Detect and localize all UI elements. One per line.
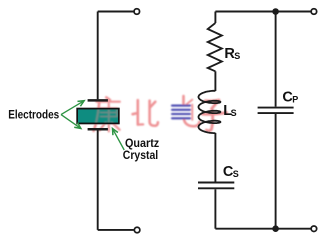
- svg-text:CS: CS: [223, 164, 239, 180]
- arrow electrodes-top: [61, 101, 84, 115]
- capacitor CS plate top: [198, 182, 234, 184]
- terminal bottom-right: [311, 226, 317, 232]
- capacitor CS plate bottom: [198, 187, 234, 189]
- arrow quartz-crystal: [113, 129, 125, 150]
- terminal top-right: [311, 9, 317, 15]
- wire below CS: [214, 189, 216, 228]
- wire top horizontal: [215, 11, 310, 13]
- capacitor CP plate bottom: [258, 112, 294, 114]
- junction node top: [272, 8, 279, 15]
- watermark (pink CJK characters with blue bars): [94, 96, 227, 132]
- capacitor CP plate top: [258, 107, 294, 109]
- svg-text:RS: RS: [224, 46, 240, 62]
- wire bottom-left horizontal: [98, 229, 134, 231]
- terminal bottom-left: [134, 227, 140, 233]
- terminal top-left: [134, 9, 140, 15]
- wire between resistor and inductor: [214, 71, 216, 91]
- wire above resistor: [214, 12, 216, 24]
- watermark char ZI: [202, 100, 226, 131]
- electrode plate bottom: [88, 128, 108, 131]
- watermark char KANG: [94, 97, 120, 131]
- arrow electrodes-bottom: [61, 115, 81, 129]
- quartz crystal body veil (mutes watermark over teal): [77, 109, 119, 124]
- watermark char DIAN (pink strokes): [184, 96, 200, 126]
- resistor RS zigzag: [208, 23, 222, 71]
- svg-text:LS: LS: [223, 103, 236, 119]
- junction node bottom: [272, 225, 279, 232]
- inductor LS coil: [199, 91, 221, 133]
- quartz crystal body (teal rectangle): [77, 109, 119, 124]
- wire left vertical lower: [97, 130, 99, 230]
- wire left vertical upper: [97, 12, 99, 100]
- svg-text:Crystal: Crystal: [123, 149, 158, 162]
- watermark char BI: [133, 100, 158, 126]
- wire bottom horizontal: [215, 228, 310, 230]
- watermark blue bars over DIAN: [172, 106, 190, 119]
- electrode plate top: [88, 99, 108, 102]
- branch CP vertical upper: [275, 12, 277, 107]
- svg-text:CP: CP: [282, 90, 298, 106]
- wire between inductor and CS: [214, 133, 216, 182]
- svg-text:Electrodes: Electrodes: [8, 109, 59, 122]
- branch CP vertical lower: [275, 114, 277, 229]
- wire top-left horizontal: [98, 11, 134, 13]
